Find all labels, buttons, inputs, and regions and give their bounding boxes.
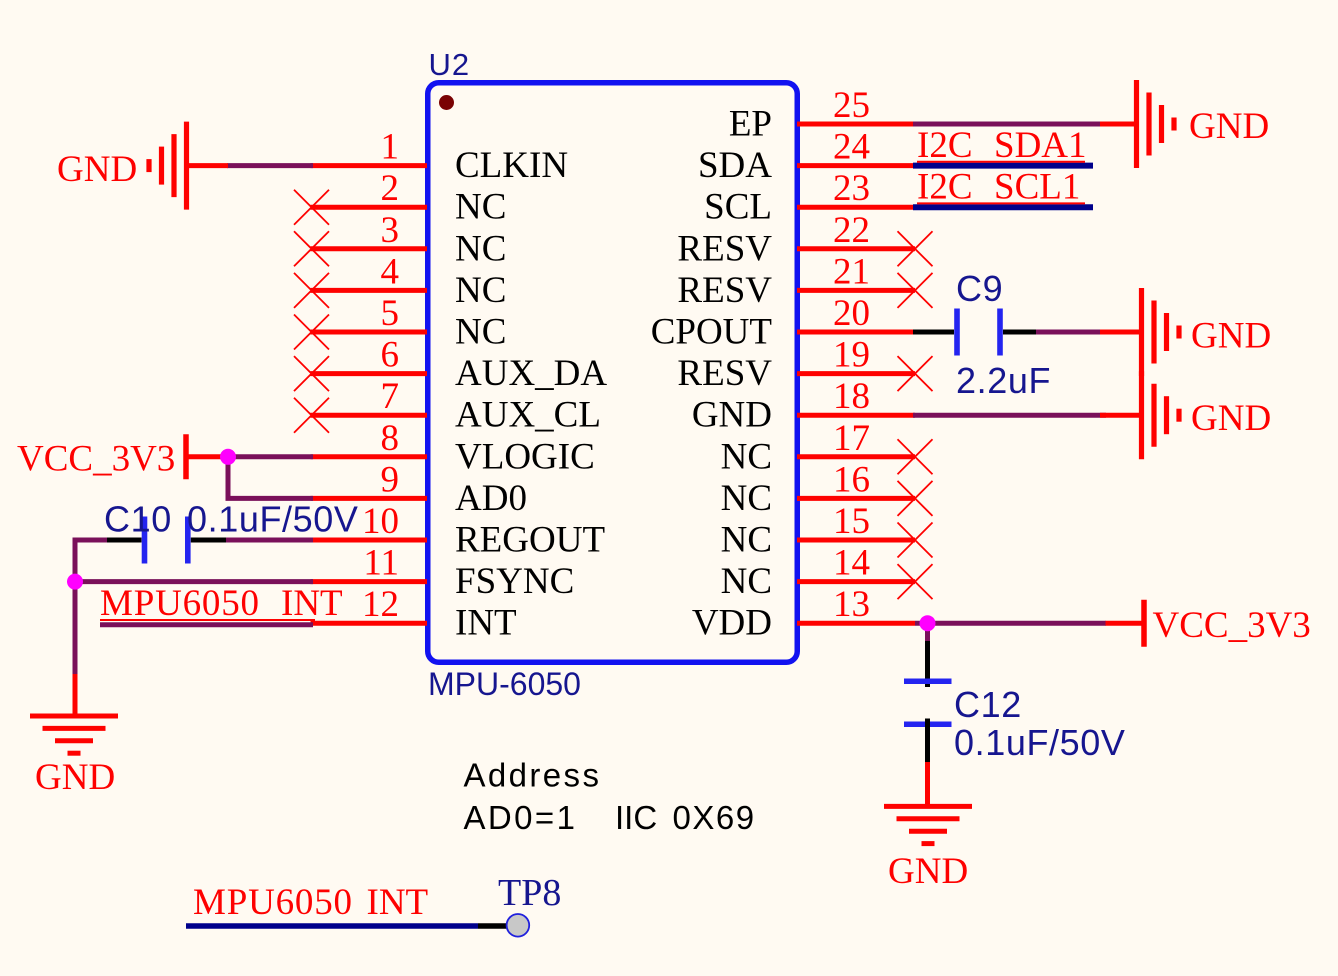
svg-text:RESV: RESV [677, 270, 772, 311]
svg-text:23: 23 [833, 168, 870, 209]
wire C9 to GND [1036, 330, 1106, 335]
svg-text:SDA1: SDA1 [994, 125, 1087, 166]
pin 25 EP [729, 85, 915, 145]
svg-text:AUX_CL: AUX_CL [455, 395, 601, 436]
svg-text:9: 9 [381, 459, 400, 500]
ground GND top-right [1100, 80, 1174, 168]
svg-text:I2C: I2C [917, 167, 973, 208]
svg-text:8: 8 [381, 418, 400, 459]
svg-text:GND: GND [888, 851, 968, 892]
svg-text:CPOUT: CPOUT [651, 312, 772, 353]
pin 12 INT [311, 584, 517, 644]
svg-text:AD0=1: AD0=1 [464, 799, 578, 836]
power port VCC_3V3 left [186, 434, 229, 479]
pin 21 RESV [677, 251, 932, 311]
svg-text:MPU-6050: MPU-6050 [428, 666, 581, 702]
pin 8 VLOGIC [311, 418, 595, 478]
pin 9 AD0 [311, 459, 527, 519]
svg-text:11: 11 [363, 543, 399, 584]
svg-text:VDD: VDD [692, 603, 772, 644]
svg-text:16: 16 [833, 459, 870, 500]
wire junction down to ground [73, 582, 78, 718]
pin 1 CLKIN [311, 127, 569, 187]
svg-text:5: 5 [381, 293, 400, 334]
net label MPU6050_INT pin12 [100, 583, 343, 624]
pin 15 NC [721, 501, 933, 561]
svg-text:GND: GND [35, 757, 115, 798]
svg-text:NC: NC [721, 561, 772, 602]
svg-text:22: 22 [833, 210, 870, 251]
svg-text:17: 17 [833, 418, 870, 459]
svg-text:14: 14 [833, 543, 870, 584]
svg-text:20: 20 [833, 293, 870, 334]
svg-text:0.1uF/50V: 0.1uF/50V [954, 722, 1126, 763]
svg-text:GND: GND [692, 395, 772, 436]
ground GND below C12 [884, 806, 972, 843]
svg-text:2.2uF: 2.2uF [956, 360, 1051, 401]
svg-text:Address: Address [464, 757, 602, 794]
net label MPU6050_INT bottom [193, 882, 428, 923]
svg-text:NC: NC [721, 436, 772, 477]
svg-text:6: 6 [381, 335, 400, 376]
pin 23 SCL [704, 168, 915, 228]
wire C10 right to pin10 REGOUT [226, 538, 313, 543]
test point TP8 pad [507, 914, 530, 937]
svg-text:21: 21 [833, 251, 870, 292]
svg-text:GND: GND [1189, 106, 1269, 147]
ground GND right of C9 [1100, 288, 1179, 376]
svg-text:GND: GND [1191, 316, 1271, 357]
ground GND right of pin18 [1100, 371, 1179, 459]
test point TP8 lead [478, 923, 507, 929]
svg-text:24: 24 [833, 127, 870, 168]
svg-text:3: 3 [381, 210, 400, 251]
pin 10 REGOUT [311, 501, 606, 561]
svg-text:FSYNC: FSYNC [455, 561, 574, 602]
pin 2 NC [294, 168, 506, 228]
wire pin1 to GND [227, 163, 313, 168]
svg-text:MPU6050: MPU6050 [193, 882, 353, 923]
wire pin25 EP to GND [913, 122, 1101, 127]
pin 20 CPOUT [651, 293, 915, 353]
wire VCC down to pin9 AD0 [226, 457, 314, 499]
svg-text:AD0: AD0 [455, 478, 527, 519]
svg-text:0.1uF/50V: 0.1uF/50V [187, 499, 359, 540]
pin 19 RESV [677, 335, 932, 395]
pin 3 NC [294, 210, 506, 269]
svg-text:I2C: I2C [917, 125, 973, 166]
svg-text:13: 13 [833, 584, 870, 625]
svg-text:VCC_3V3: VCC_3V3 [17, 438, 175, 479]
svg-text:NC: NC [721, 520, 772, 561]
svg-text:IIC: IIC [615, 799, 657, 836]
svg-text:REGOUT: REGOUT [455, 520, 605, 561]
wire junction to pin11 FSYNC [75, 579, 313, 584]
pin 18 GND [692, 376, 915, 436]
wire C10 left down to junction [75, 538, 107, 582]
svg-text:19: 19 [833, 335, 870, 376]
pin 24 SDA [698, 127, 915, 187]
svg-text:RESV: RESV [677, 353, 772, 394]
pin 16 NC [721, 459, 933, 519]
wire pin13 VDD to VCC [915, 621, 1106, 626]
svg-text:C10: C10 [104, 499, 172, 540]
capacitor C12 [904, 681, 952, 763]
svg-text:EP: EP [729, 104, 772, 145]
svg-text:25: 25 [833, 85, 870, 126]
svg-text:SCL1: SCL1 [994, 167, 1080, 208]
capacitor C10 [106, 517, 226, 564]
svg-text:18: 18 [833, 376, 870, 417]
svg-text:NC: NC [455, 228, 506, 269]
wire C12 to ground [925, 762, 930, 808]
svg-text:TP8: TP8 [498, 872, 561, 914]
svg-text:12: 12 [362, 584, 399, 625]
svg-text:INT: INT [367, 882, 429, 923]
wire VCC to pin8 VLOGIC [228, 454, 313, 459]
pin 5 NC [294, 293, 506, 353]
pin 6 AUX_DA [294, 335, 607, 395]
svg-text:0X69: 0X69 [673, 799, 756, 836]
wire net I2C_SDA1 [913, 163, 1093, 169]
junction at pin13 VDD [920, 615, 936, 631]
svg-text:10: 10 [362, 501, 399, 542]
wire net I2C_SCL1 [913, 204, 1093, 210]
ground GND bottom-left [30, 716, 118, 753]
note AD0=1 IIC 0X69 [464, 799, 756, 836]
svg-text:NC: NC [721, 478, 772, 519]
svg-text:NC: NC [455, 270, 506, 311]
net label I2C_SDA1 [917, 125, 1087, 166]
svg-text:INT: INT [281, 583, 343, 624]
svg-text:SDA: SDA [698, 145, 772, 186]
svg-text:VLOGIC: VLOGIC [455, 436, 595, 477]
ground GND left of pin1 [149, 122, 228, 210]
svg-text:INT: INT [455, 603, 517, 644]
pin 4 NC [294, 251, 506, 311]
svg-text:SCL: SCL [704, 187, 772, 228]
svg-text:C9: C9 [956, 268, 1003, 309]
svg-text:1: 1 [381, 127, 400, 168]
svg-text:GND: GND [1191, 398, 1271, 439]
svg-text:RESV: RESV [677, 228, 772, 269]
svg-text:15: 15 [833, 501, 870, 542]
pin 17 NC [721, 418, 933, 478]
wire net MPU6050_INT to TP8 [186, 923, 478, 929]
svg-text:AUX_DA: AUX_DA [455, 353, 607, 394]
svg-text:CLKIN: CLKIN [455, 145, 568, 186]
svg-text:C12: C12 [954, 684, 1022, 725]
pin 22 RESV [677, 210, 932, 269]
wire pin18 to GND [913, 413, 1106, 418]
pin-1 marker dot [439, 95, 454, 110]
svg-text:NC: NC [455, 187, 506, 228]
svg-text:VCC_3V3: VCC_3V3 [1153, 605, 1311, 646]
svg-text:7: 7 [381, 376, 400, 417]
pin 7 AUX_CL [294, 376, 601, 436]
svg-text:GND: GND [57, 149, 137, 190]
wire net MPU6050_INT to pin12 INT [100, 622, 313, 627]
junction at VCC/pin8 [220, 449, 236, 465]
pin 11 FSYNC [311, 543, 575, 603]
junction at pin11 net [67, 574, 83, 590]
wire junction down to C12 [925, 623, 930, 687]
capacitor C9 [913, 309, 1036, 356]
svg-text:4: 4 [381, 251, 400, 292]
IC U2 MPU-6050 body [428, 83, 798, 663]
svg-text:MPU6050: MPU6050 [100, 583, 260, 624]
svg-text:2: 2 [381, 168, 400, 209]
power port VCC_3V3 right [1106, 600, 1145, 647]
pin 14 NC [721, 543, 933, 603]
pin 13 VDD [692, 584, 915, 644]
svg-text:U2: U2 [429, 47, 471, 82]
svg-text:NC: NC [455, 312, 506, 353]
net label I2C_SCL1 [917, 167, 1085, 208]
